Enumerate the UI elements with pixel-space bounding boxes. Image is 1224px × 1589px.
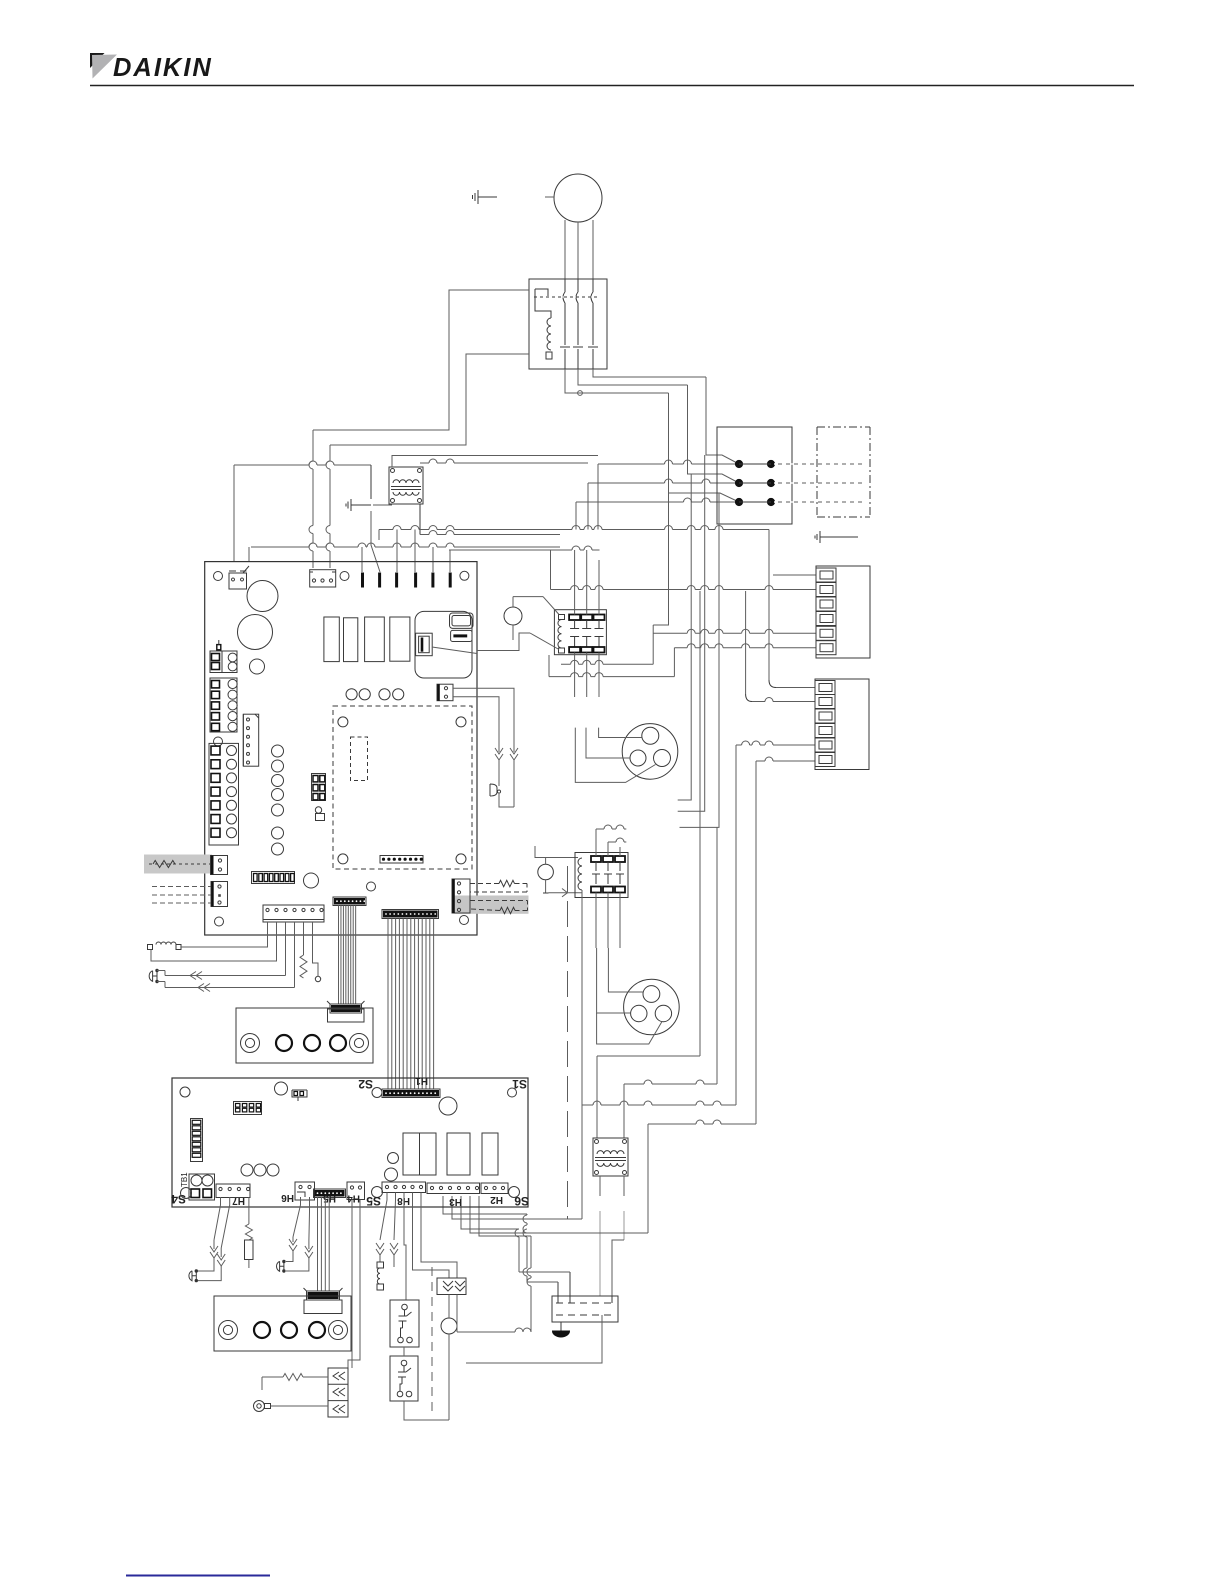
H3 label (449, 1196, 462, 1207)
K2M feed y829 (596, 825, 626, 829)
stair x582 down (581, 890, 583, 1219)
connector X1A (229, 566, 249, 589)
terminal dot right row1 (767, 460, 774, 467)
wire below L1 (151, 950, 212, 962)
screw hole ML (214, 737, 223, 746)
thermistor lead 2b (498, 760, 500, 781)
connector X11A (211, 856, 228, 875)
fan motor M1F (554, 174, 602, 222)
A2P circle r1 (388, 1153, 399, 1164)
T2 lead bl gray (599, 1211, 601, 1296)
jumper strip 8 (252, 872, 295, 884)
terminal block 7row (209, 743, 239, 845)
ribbon conn bottom 3 (304, 1288, 343, 1314)
capacitor C1R cap symbol (399, 1312, 412, 1328)
dashed leads X12A (152, 887, 211, 904)
X3M pin b (569, 1272, 571, 1303)
terminal box X2M (717, 427, 792, 524)
wire kink into dot row3 (669, 490, 740, 502)
A2P vertical DIP (191, 1119, 203, 1162)
H3 wire 1 (443, 1196, 527, 1214)
wire E1 out 3 (565, 369, 669, 393)
K1M diagonal top (543, 597, 559, 615)
capacitor C2R box (390, 1356, 418, 1401)
wire bus y547 (251, 543, 560, 547)
lug-resistor link (262, 1377, 266, 1390)
ptb2 hole 3 (309, 1322, 325, 1338)
X2M-B terminal 5 (815, 738, 835, 752)
bridge diode 1 (333, 1372, 345, 1380)
K2M top pin 1 (595, 829, 597, 856)
terminal TB1 (189, 1174, 215, 1200)
thermistor lead 2 (498, 715, 500, 752)
A2P circle S5 (372, 1187, 383, 1198)
svg-text:H1: H1 (415, 1075, 428, 1086)
H6 label (281, 1192, 294, 1203)
wire pair therm a (165, 975, 286, 977)
H6 wire 1 (293, 1197, 301, 1237)
wire motor lead 3 (592, 220, 594, 279)
chevrons left b (198, 984, 210, 992)
A2P jumper 2x4 (234, 1102, 262, 1115)
X3M pin a (557, 1282, 559, 1303)
contactor K2M box (575, 853, 628, 898)
connector H8 (382, 1182, 426, 1193)
thermistor loop dashed lower (470, 901, 528, 914)
transformer T2 core (595, 1158, 626, 1161)
K2M top pin 2 (607, 842, 609, 856)
tb7 circle 6 (227, 814, 237, 824)
svg-text:H8: H8 (397, 1195, 410, 1206)
A2P screw TL (180, 1087, 190, 1097)
board pin 5 (431, 573, 434, 588)
svg-text:S5: S5 (366, 1194, 381, 1208)
gray band X11A (144, 855, 212, 874)
IPM module outline (415, 611, 472, 678)
header rule (90, 85, 1134, 87)
ribbon connector wide top (382, 910, 439, 919)
tb5 square 5 (212, 723, 220, 730)
therm arrows g (376, 1243, 384, 1255)
X1M terminal 5 (816, 626, 836, 640)
ring lug (254, 1401, 329, 1412)
wire feed row2 (588, 479, 735, 483)
svg-text:TB1: TB1 (180, 1172, 189, 1187)
S6 label (514, 1194, 529, 1208)
thermistor arrows 1 (510, 748, 518, 760)
wire drop to 3pin conn b (326, 445, 330, 568)
X2M-B terminal 3 (815, 709, 835, 723)
board pin 4 (414, 573, 417, 588)
K2M contact 3 (615, 856, 625, 893)
X3M bottom lead (555, 1315, 602, 1363)
svg-text:H7: H7 (232, 1195, 245, 1206)
relay RY2 (344, 618, 358, 662)
MCU screw 2 (456, 717, 466, 727)
probe left (149, 969, 165, 988)
stair y1105 (582, 1101, 736, 1105)
wire into B2 (752, 698, 815, 702)
H8 wire 2 (394, 1193, 396, 1241)
relay E1 pin stubs below (565, 349, 593, 369)
ptb1 ring R (350, 1034, 369, 1053)
thermistor lead 1 (513, 711, 515, 752)
gray band right (454, 896, 529, 914)
A2P circle r2 (385, 1168, 398, 1181)
wire bus y633.3 (653, 629, 816, 633)
ribbon conn bottom 2 (382, 1089, 440, 1098)
H8 wire 4 (413, 1193, 450, 1279)
power terminal box 1 (236, 1008, 373, 1063)
X2M-B terminal 4 (815, 724, 835, 738)
second PCB A2P outline (172, 1078, 528, 1207)
riser x588 (587, 483, 589, 530)
ptb1 hole 3 (330, 1035, 346, 1051)
CN dot 6 (247, 761, 250, 764)
wire kink into dot row1 (706, 452, 739, 464)
M1C lead left (597, 948, 631, 1013)
probe c (189, 1269, 198, 1282)
4 test circles (346, 689, 404, 700)
screw hole BR (460, 916, 469, 925)
S2 label (358, 1077, 373, 1091)
ribbon cable 1 (339, 906, 356, 1005)
big capacitor C1 (247, 581, 278, 612)
wire to K1M coil bottom (477, 633, 530, 651)
terminal circle small (315, 970, 320, 982)
CN dot 1 (247, 718, 250, 721)
transformer T1 secondary coil (393, 492, 419, 495)
tb7 circle 4 (227, 787, 237, 797)
X2M-B terminal 6 (815, 753, 835, 767)
terminal block 2x2 (210, 651, 237, 673)
tb7 circle 2 (227, 759, 237, 769)
rail x719 (680, 493, 720, 827)
relay E1 dashed trip line (531, 296, 600, 298)
therm lead c (198, 1258, 214, 1271)
therm arrows d (217, 1248, 225, 1266)
X1M terminal 1 (816, 568, 836, 582)
screw hole TL (214, 572, 223, 581)
H8 wire 3 (404, 1193, 406, 1301)
K1M coil terminal top (559, 615, 565, 620)
K1M bottom pins (575, 653, 599, 698)
ribbon connector H1 top (333, 897, 366, 906)
tb5 square 2 (212, 691, 220, 698)
tb7 square 3 (211, 774, 220, 783)
H5 ribbon (318, 1197, 330, 1291)
H8 wire 5 (421, 1193, 457, 1279)
K1M out bus y664.3 (561, 660, 653, 664)
tb7 square 7 (211, 828, 220, 837)
module circle leads (448, 1295, 450, 1421)
ptb2 hole 2 (281, 1322, 297, 1338)
wire drop x550.5 (550, 550, 552, 590)
tb5 circle 4 (228, 712, 237, 721)
A2P 3 circles (241, 1164, 279, 1176)
crankcase heater chain (377, 1255, 384, 1290)
M1C diagonal lead (597, 1013, 662, 1044)
column of test pads (272, 745, 284, 855)
X3M dashed row 2 (556, 1314, 614, 1316)
board pin 1 (361, 573, 364, 588)
K2M top pin 3 (619, 847, 621, 856)
wire bus y589.5 (551, 586, 817, 590)
tb5 circle 5 (228, 722, 237, 731)
small circle C3 (250, 659, 265, 674)
tb7 square 6 (211, 815, 220, 824)
wire rail x706 (705, 377, 707, 452)
field wire dashed row1 (774, 463, 862, 465)
riser x674 (673, 648, 675, 677)
tb7 square 4 (211, 787, 220, 796)
T2 lead br gray (612, 1211, 624, 1296)
terminal link row2 (739, 482, 771, 484)
wire X3M pin-b left (519, 1271, 570, 1273)
wire E1 left bottom (330, 354, 529, 445)
bottom terminal block X3M (552, 1296, 618, 1322)
tb5 circle 1 (228, 679, 237, 688)
ribbon connector H1 bottom label (415, 1075, 428, 1086)
riser x653 (652, 625, 654, 664)
connector X5A 7pin (263, 905, 324, 922)
A2P screw S6 (509, 1187, 520, 1198)
terminal strip X1M outline (816, 566, 870, 658)
tb5 circle 2 (228, 690, 237, 699)
wire feed row1 (598, 460, 735, 464)
MCU daughter board dashed (333, 706, 472, 869)
K2M coil (578, 858, 582, 890)
wire bus y550 (449, 546, 600, 550)
relay E1 contact hooks (563, 279, 593, 303)
tb7 circle 5 (227, 800, 237, 810)
wire X5A pin3 down (285, 922, 287, 976)
MCU bottom connector (380, 856, 423, 864)
rail x756 (755, 761, 757, 1124)
svg-text:S2: S2 (358, 1077, 373, 1091)
therm arrows h (390, 1243, 398, 1255)
A2P circle top (275, 1082, 288, 1095)
MCU dashed chip (351, 737, 368, 781)
small part CN2 (315, 807, 324, 821)
power terminal box 2 (214, 1296, 351, 1351)
probe e (277, 1260, 286, 1273)
therm lead e (286, 1251, 293, 1262)
x567 vertical (567, 866, 569, 1219)
wire motor lead 1 (564, 220, 566, 279)
wire X5A pin2 down (212, 922, 277, 961)
diode module arrows (443, 1281, 465, 1291)
ribbon conn bottom 1 (327, 1001, 365, 1022)
board pin 6 (449, 573, 452, 588)
compressor M1C (624, 979, 680, 1035)
wire E1 out 2 (578, 369, 688, 385)
wire drop x362 (361, 547, 363, 572)
ground near T1 (346, 499, 371, 511)
relay E1 coil wiring (535, 289, 551, 318)
H7 label (232, 1195, 245, 1206)
wire drop to 3pin conn a (309, 430, 313, 568)
wire rail x668 (668, 393, 670, 490)
S5 label (366, 1194, 381, 1208)
CN dot 5 (247, 752, 250, 755)
X2M-B terminal 2 (815, 695, 835, 709)
capacitor C2R bot pins (397, 1384, 412, 1397)
module circle (441, 1318, 457, 1334)
H8 lead h (393, 1255, 395, 1267)
aux circle bottom bar (543, 892, 549, 894)
M1C inner circle top (643, 986, 660, 1003)
A2P screw S4 (181, 1188, 192, 1199)
thermal relay E1 box (529, 279, 607, 369)
jumper block 2x3 (312, 774, 326, 801)
H3 wire 4 (470, 1196, 648, 1233)
A2P relay R4 (482, 1133, 498, 1175)
M2F lead top (599, 728, 642, 738)
module lead 2 (456, 1295, 458, 1333)
diode bridge (328, 1368, 348, 1417)
H7 wire 2 (221, 1197, 230, 1248)
wire T1 bot-right (420, 504, 560, 535)
H2 label (490, 1194, 503, 1205)
riser x598 (597, 464, 599, 530)
terminal dot left row2 (735, 479, 742, 486)
wire T1 top-left (392, 456, 598, 468)
resistor in band (153, 861, 175, 868)
MCU screw 1 (338, 717, 348, 727)
wire x371 ground-drop (370, 465, 372, 499)
wire y1363 left (466, 1362, 555, 1364)
wire bus y465 (234, 461, 371, 465)
capacitor C2R cap symbol (398, 1368, 411, 1384)
wire X5A pin5 down (303, 922, 305, 955)
X3M pin c (611, 1296, 613, 1303)
TB1 label (180, 1172, 189, 1187)
X3M ground stem (560, 1322, 562, 1331)
wire motor lead 2 (577, 222, 579, 279)
T2 lead br (623, 1176, 625, 1196)
big capacitor C2 (238, 615, 273, 650)
X3M ground symbol (553, 1331, 570, 1337)
pad circle mid (304, 873, 319, 888)
terminal block 5row (210, 678, 237, 732)
wire into B1 (776, 687, 815, 689)
M1C inner circle right (655, 1005, 671, 1021)
tb5 circle 3 (228, 701, 237, 710)
wire X3A out2 (453, 697, 499, 715)
X3M dashed row 1 (556, 1302, 614, 1304)
connector H2 (481, 1183, 508, 1194)
connector X3A right (437, 684, 453, 701)
wire T1 top-right (420, 459, 588, 463)
IPM sub rect 2 (451, 630, 472, 641)
x531 down (527, 1236, 531, 1332)
screw hole BL (215, 917, 224, 926)
wire y1332 (457, 1328, 531, 1332)
terminal link row3 (739, 501, 771, 503)
connector H3 (427, 1183, 480, 1194)
M1C inner circle left (631, 1005, 647, 1021)
terminal link row1 (739, 463, 771, 465)
tb7 square 5 (211, 801, 220, 810)
therm arrows f (305, 1240, 313, 1258)
X1M terminal 3 (816, 597, 836, 611)
wire feed row3 (576, 498, 735, 502)
wire pair therm b (165, 987, 295, 989)
IPM left part (416, 633, 433, 656)
H7 resistor wire (248, 1197, 250, 1224)
terminal dot right row3 (767, 498, 774, 505)
pressure switch S1PH (504, 597, 522, 640)
wire drop x450 (449, 550, 451, 572)
tb7 circle 1 (227, 746, 237, 756)
transformer T2 secondary (597, 1163, 624, 1166)
relay E1 coil terminal (546, 352, 552, 359)
wire E1 out 1 (593, 369, 706, 377)
stub x549 (548, 655, 550, 677)
bridge diode 3 (333, 1405, 345, 1413)
transformer T1 core (391, 487, 421, 490)
wire bus y575 into A1 (773, 574, 816, 576)
relay RY3 (365, 617, 385, 662)
H3 wire 2 (452, 1196, 582, 1219)
transformer T1 screws (391, 469, 422, 503)
tb5 square 3 (212, 702, 220, 709)
H4 wire 2 (348, 1200, 360, 1369)
M2F lead left (586, 728, 630, 758)
wire T1 bot-left (373, 504, 392, 506)
X2M-B terminal 1 (815, 681, 835, 695)
ptb2 hole 1 (254, 1322, 270, 1338)
wire kink into dot row2 (688, 471, 740, 483)
cap bottom lead (404, 1401, 449, 1420)
K1M coil (558, 620, 562, 649)
therm arrows c (210, 1240, 218, 1258)
connector CN vertical (243, 714, 258, 766)
H3 wire 3 (461, 1196, 519, 1229)
rail x691 (678, 474, 692, 800)
transformer T2 screws (595, 1140, 627, 1175)
svg-text:DAIKIN: DAIKIN (113, 54, 213, 82)
connector H7 (216, 1184, 250, 1198)
pocket lead (248, 1260, 250, 1269)
wire drop x379 (378, 530, 380, 541)
dashed wire in band (146, 863, 210, 865)
field ground (815, 531, 858, 543)
wire X5A pin6 down (313, 922, 319, 970)
aux wire to K2M coil (549, 889, 583, 897)
svg-text:H2: H2 (490, 1194, 503, 1205)
main PCB A1P outline (205, 562, 477, 935)
field wiring dash-dot box (817, 427, 870, 517)
A2P relay R2 (420, 1133, 437, 1175)
cap link (403, 1347, 405, 1356)
tb7 circle 3 (227, 773, 237, 783)
transformer T2 primary (597, 1151, 624, 1154)
H6 wire 2 (308, 1197, 311, 1240)
tb5 square 4 (212, 713, 220, 720)
tb7 circle 7 (227, 828, 237, 838)
stair x597 down (596, 1056, 598, 1138)
capacitor C2R top pin (401, 1360, 407, 1372)
wire drop x234 (233, 465, 235, 562)
tb7 square 2 (211, 760, 220, 769)
K2M contact 1 (591, 856, 601, 893)
K1M pin risers (575, 550, 587, 560)
IPM sub rect 1 (450, 613, 474, 628)
capacitor C1R top pin (402, 1304, 408, 1316)
H8 wire 1 (380, 1193, 387, 1241)
